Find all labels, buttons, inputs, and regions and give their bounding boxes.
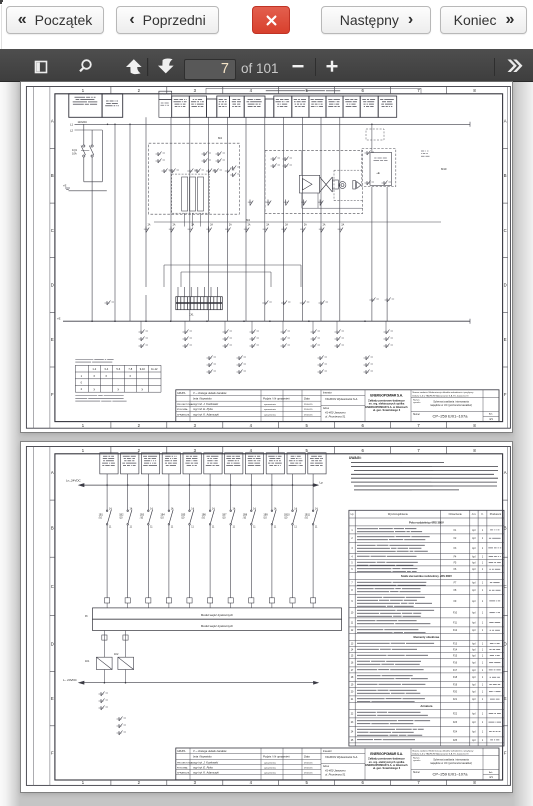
svg-text:D: D bbox=[51, 642, 54, 647]
svg-text:1K1: 1K1 bbox=[85, 660, 90, 663]
svg-text:10: 10 bbox=[351, 613, 354, 615]
svg-text:C: C bbox=[51, 228, 54, 233]
relay group 2K3 bbox=[318, 356, 328, 375]
svg-text:1: 1 bbox=[482, 677, 484, 679]
svg-text:1: 1 bbox=[82, 448, 85, 453]
svg-text:10A: 10A bbox=[72, 152, 77, 156]
svg-text:2A: 2A bbox=[323, 224, 326, 227]
svg-text:3: 3 bbox=[194, 780, 197, 785]
svg-text:24: 24 bbox=[351, 732, 354, 734]
junction dots on Ln rail bbox=[106, 484, 314, 486]
svg-text:11: 11 bbox=[171, 526, 174, 529]
svg-text:1: 1 bbox=[482, 538, 484, 540]
L2 feeder bbox=[75, 129, 103, 131]
svg-text:F16: F16 bbox=[453, 663, 458, 665]
svg-text:kpl: kpl bbox=[472, 613, 475, 615]
svg-text:Oznaczenie: Oznaczenie bbox=[449, 513, 463, 516]
binding margin line bbox=[33, 447, 35, 786]
svg-text:kpl: kpl bbox=[472, 583, 475, 585]
svg-text:F25: F25 bbox=[453, 740, 458, 742]
svg-text:F: F bbox=[51, 751, 54, 756]
svg-text:CP–259 E/01–107a: CP–259 E/01–107a bbox=[433, 772, 469, 777]
svg-text:E: E bbox=[51, 696, 54, 701]
svg-text:kpl: kpl bbox=[472, 677, 475, 679]
svg-text:Numer: Numer bbox=[413, 413, 420, 416]
svg-text:X: X bbox=[129, 374, 131, 378]
svg-text:F: F bbox=[51, 392, 54, 397]
svg-text:29.04.15: 29.04.15 bbox=[304, 404, 313, 406]
svg-text:11: 11 bbox=[233, 526, 236, 529]
svg-text:rysunku: rysunku bbox=[413, 759, 421, 762]
sidebar toggle icon bbox=[36, 62, 47, 73]
svg-text:1: 1 bbox=[482, 583, 484, 585]
contactor contacts in A bbox=[156, 152, 166, 164]
svg-text:19: 19 bbox=[351, 684, 354, 686]
svg-text:1: 1 bbox=[482, 649, 484, 651]
relay group 1K1 bbox=[140, 321, 142, 330]
svg-text:Nazwa zadania: Modernizacja uk: Nazwa zadania: Modernizacja układów wzbu… bbox=[413, 749, 475, 752]
relay group 1K8 bbox=[385, 321, 387, 330]
enclosure E bottom contacts bbox=[248, 200, 323, 206]
svg-text:29.04.15: 29.04.15 bbox=[304, 762, 313, 764]
svg-text:A: A bbox=[51, 470, 54, 475]
C side labels bbox=[421, 150, 424, 152]
svg-text:A: A bbox=[504, 470, 507, 475]
svg-text:F21: F21 bbox=[453, 699, 458, 701]
svg-text:mgr inż. E. Pyka: mgr inż. E. Pyka bbox=[193, 765, 213, 769]
separator right bbox=[494, 58, 495, 76]
svg-text:0: 0 bbox=[81, 381, 83, 385]
svg-text:kpl: kpl bbox=[472, 569, 475, 571]
svg-text:9: 9 bbox=[351, 601, 353, 603]
svg-text:M4: M4 bbox=[218, 136, 222, 140]
svg-text:1: 1 bbox=[482, 655, 484, 657]
svg-text:14: 14 bbox=[233, 508, 236, 511]
relay group 2K4 bbox=[364, 356, 374, 375]
svg-text:1-2: 1-2 bbox=[92, 367, 96, 371]
header input boxes bbox=[100, 453, 326, 474]
breaker contacts bbox=[106, 510, 317, 526]
svg-text:Adres: Adres bbox=[323, 765, 330, 768]
svg-text:2: 2 bbox=[138, 423, 141, 428]
svg-text:4/1: 4/1 bbox=[489, 775, 493, 779]
Ln supply rail bbox=[79, 484, 318, 487]
fuse labels bbox=[148, 224, 345, 227]
svg-text:kpl: kpl bbox=[472, 692, 475, 694]
svg-text:2A: 2A bbox=[148, 224, 151, 227]
svg-text:1: 1 bbox=[482, 530, 484, 532]
table rows bbox=[349, 521, 504, 743]
svg-text:F14: F14 bbox=[453, 649, 458, 651]
svg-text:5: 5 bbox=[306, 423, 309, 428]
selector table bbox=[75, 365, 161, 392]
title block frame bbox=[176, 390, 499, 422]
svg-text:Lp: Lp bbox=[320, 481, 324, 485]
svg-text:F4: F4 bbox=[454, 556, 457, 558]
svg-text:F23: F23 bbox=[453, 722, 458, 724]
sheet outer frame bbox=[26, 447, 510, 786]
svg-text:1: 1 bbox=[482, 556, 484, 558]
svg-text:14: 14 bbox=[130, 508, 133, 511]
svg-text:F22: F22 bbox=[453, 714, 458, 716]
svg-text:2A: 2A bbox=[229, 224, 232, 227]
output wires bbox=[104, 631, 125, 683]
svg-text:7-8: 7-8 bbox=[128, 367, 132, 371]
svg-text:11: 11 bbox=[150, 526, 153, 529]
svg-text:Schemat zasilania i sterowania: Schemat zasilania i sterowania bbox=[433, 758, 469, 762]
svg-text:kpl: kpl bbox=[472, 556, 475, 558]
Ln return rail bbox=[79, 681, 318, 684]
relay group 1K4 bbox=[251, 321, 253, 330]
plus bbox=[327, 61, 338, 72]
page 7 : schematic sheet 1 bbox=[21, 82, 512, 432]
svg-text:F19: F19 bbox=[453, 684, 458, 686]
relay group 1K3 bbox=[224, 321, 226, 330]
up arrow bbox=[126, 59, 142, 74]
svg-text:Moduł wejść dyskretnych: Moduł wejść dyskretnych bbox=[201, 624, 234, 628]
svg-text:mgr inż. E. Pyka: mgr inż. E. Pyka bbox=[193, 407, 213, 411]
svg-text:Data: Data bbox=[304, 755, 310, 759]
svg-text:2A: 2A bbox=[173, 224, 176, 227]
svg-text:29.04.15: 29.04.15 bbox=[304, 767, 313, 769]
svg-text:2A: 2A bbox=[248, 224, 251, 227]
svg-text:1: 1 bbox=[82, 423, 85, 428]
svg-text:Pn: Pn bbox=[85, 615, 89, 618]
svg-text:F15: F15 bbox=[453, 655, 458, 657]
svg-text:14: 14 bbox=[191, 508, 194, 511]
svg-text:3: 3 bbox=[351, 548, 353, 550]
svg-text:kpl: kpl bbox=[472, 740, 475, 742]
svg-text:X: X bbox=[93, 387, 95, 391]
svg-text:kpl: kpl bbox=[472, 563, 475, 565]
svg-text:rysunku: rysunku bbox=[413, 401, 421, 404]
selector table notes top bbox=[75, 359, 93, 361]
main breaker 1Q1 bbox=[69, 124, 107, 321]
svg-text:kpl: kpl bbox=[472, 601, 475, 603]
svg-text:TAURON Wytwarzanie S.A.: TAURON Wytwarzanie S.A. bbox=[325, 755, 358, 759]
svg-text:V – obsługa układu kanałów: V – obsługa układu kanałów bbox=[193, 391, 228, 395]
svg-text:6: 6 bbox=[362, 423, 365, 428]
svg-text:Szafa sterownika rozdzielnicy: Szafa sterownika rozdzielnicy +RS 380V bbox=[401, 574, 452, 578]
svg-text:11: 11 bbox=[351, 622, 354, 624]
top supply bus L1 bbox=[75, 123, 471, 125]
svg-text:1: 1 bbox=[482, 699, 484, 701]
svg-text:1: 1 bbox=[482, 714, 484, 716]
svg-text:6: 6 bbox=[351, 569, 353, 571]
svg-text:7: 7 bbox=[417, 423, 420, 428]
svg-text:Inwestor: Inwestor bbox=[323, 750, 332, 753]
svg-text:14: 14 bbox=[253, 508, 256, 511]
selector table notes bottom bbox=[75, 395, 97, 397]
svg-text:F20: F20 bbox=[453, 692, 458, 694]
svg-text:M4: M4 bbox=[246, 218, 250, 222]
title block right text bbox=[413, 391, 494, 421]
svg-text:napędów w UC (poziomów kanałów: napędów w UC (poziomów kanałów) bbox=[430, 403, 472, 407]
svg-text:kpl: kpl bbox=[472, 699, 475, 701]
svg-text:11: 11 bbox=[191, 526, 194, 529]
separator bbox=[315, 58, 316, 76]
svg-text:Imię i Nazwisko: Imię i Nazwisko bbox=[193, 397, 212, 401]
svg-text:mgr inż. J. Kozłowski: mgr inż. J. Kozłowski bbox=[193, 760, 218, 764]
main horizontal bus bbox=[63, 320, 470, 322]
svg-text:mgr inż. J. Kozłowski: mgr inż. J. Kozłowski bbox=[193, 402, 218, 406]
svg-text:F6: F6 bbox=[454, 569, 457, 571]
title block small text bbox=[177, 749, 358, 777]
svg-text:6: 6 bbox=[362, 88, 365, 93]
svg-text:11: 11 bbox=[109, 526, 112, 529]
svg-text:X: X bbox=[105, 374, 107, 378]
letter strip lines bbox=[49, 447, 51, 786]
svg-text:/10: /10 bbox=[305, 517, 309, 520]
svg-text:11: 11 bbox=[253, 526, 256, 529]
separator bbox=[147, 58, 148, 76]
svg-text:11: 11 bbox=[294, 526, 297, 529]
dashed enclosure C bbox=[362, 149, 396, 187]
contacts in E bbox=[271, 157, 281, 169]
svg-text:2: 2 bbox=[81, 387, 83, 391]
svg-text:ul. gen. Sowińskiego 3: ul. gen. Sowińskiego 3 bbox=[373, 766, 401, 770]
svg-text:ul. gen. Sowińskiego 3: ul. gen. Sowińskiego 3 bbox=[373, 408, 401, 412]
svg-text:uprawnienia: uprawnienia bbox=[264, 772, 277, 775]
svg-text:TAURON Wytwarzanie S.A.: TAURON Wytwarzanie S.A. bbox=[325, 397, 358, 401]
svg-text:SPRAWDZIŁ: SPRAWDZIŁ bbox=[177, 413, 190, 416]
svg-text:7: 7 bbox=[417, 448, 420, 453]
svg-text:5: 5 bbox=[351, 563, 353, 565]
svg-text:8: 8 bbox=[473, 88, 476, 93]
svg-text:8: 8 bbox=[473, 448, 476, 453]
svg-text:Adres: Adres bbox=[323, 407, 330, 410]
svg-text:RYSOWAŁ: RYSOWAŁ bbox=[177, 408, 189, 411]
svg-text:uprawnienia: uprawnienia bbox=[264, 403, 277, 406]
svg-text:E: E bbox=[504, 337, 507, 342]
svg-text:1: 1 bbox=[482, 590, 484, 592]
svg-text:Lp: Lp bbox=[351, 513, 354, 516]
svg-text:Producent: Producent bbox=[490, 513, 502, 516]
magnifier icon bbox=[80, 60, 91, 71]
relay group 1K6 bbox=[312, 321, 314, 330]
sheet inner border bbox=[55, 94, 503, 422]
svg-text:29.04.15: 29.04.15 bbox=[304, 773, 313, 775]
svg-text:F: F bbox=[504, 751, 507, 756]
title block right text bbox=[413, 749, 494, 779]
svg-text:11: 11 bbox=[315, 526, 318, 529]
svg-text:F17: F17 bbox=[453, 670, 458, 672]
svg-text:1: 1 bbox=[351, 530, 353, 532]
column divider ticks bbox=[111, 87, 447, 429]
dashed partition in E bbox=[334, 170, 363, 200]
svg-text:2: 2 bbox=[138, 88, 141, 93]
svg-text:/10: /10 bbox=[119, 517, 123, 520]
svg-text:1: 1 bbox=[482, 684, 484, 686]
svg-text:mgr inż. K. Adamczyk: mgr inż. K. Adamczyk bbox=[193, 412, 220, 416]
svg-text:2: 2 bbox=[138, 780, 141, 785]
svg-text:1: 1 bbox=[482, 732, 484, 734]
svg-text:X: X bbox=[93, 374, 95, 378]
svg-text:1: 1 bbox=[482, 622, 484, 624]
svg-text:C: C bbox=[504, 228, 507, 233]
svg-text:F13: F13 bbox=[453, 643, 458, 645]
svg-text:PROJEKTOWAŁ: PROJEKTOWAŁ bbox=[177, 761, 194, 764]
svg-text:1K2: 1K2 bbox=[114, 653, 119, 656]
aux contact group 1 bbox=[99, 692, 109, 711]
bus junction dots bbox=[107, 124, 131, 126]
svg-text:bloków 1-6 w TAURON Wytwarzani: bloków 1-6 w TAURON Wytwarzanie S.A. El.… bbox=[413, 753, 469, 756]
svg-text:1: 1 bbox=[482, 548, 484, 550]
drops to bus bbox=[115, 287, 340, 321]
svg-text:C: C bbox=[51, 584, 54, 589]
svg-text:2: 2 bbox=[138, 448, 141, 453]
svg-text:UWAGI:: UWAGI: bbox=[349, 456, 362, 460]
svg-text:napędów w UC (poziomów kanałów: napędów w UC (poziomów kanałów) bbox=[430, 761, 472, 765]
svg-text:9-10: 9-10 bbox=[140, 367, 146, 371]
table header bbox=[349, 517, 504, 519]
column numbers bbox=[82, 448, 477, 785]
svg-text:F12: F12 bbox=[453, 630, 458, 632]
svg-text:Podpis / Nr uprawnień: Podpis / Nr uprawnień bbox=[263, 755, 290, 759]
discrete input module bbox=[93, 608, 342, 631]
svg-text:14: 14 bbox=[212, 508, 215, 511]
svg-text:E: E bbox=[51, 337, 54, 342]
svg-text:SPRAWDZIŁ: SPRAWDZIŁ bbox=[177, 772, 190, 775]
relay group 2K1 bbox=[207, 356, 217, 375]
svg-text:6: 6 bbox=[362, 780, 365, 785]
svg-text:F5: F5 bbox=[454, 563, 457, 565]
svg-text:41-400 Jaworzno: 41-400 Jaworzno bbox=[325, 769, 346, 773]
aux contact group 2 bbox=[117, 717, 127, 736]
distribution wires bbox=[115, 117, 387, 321]
down arrow bbox=[158, 58, 174, 73]
svg-text:ul. Promienna 51: ul. Promienna 51 bbox=[325, 414, 346, 418]
relay group 1K2 bbox=[184, 321, 186, 330]
svg-text:Il.: Il. bbox=[482, 513, 484, 516]
heater resistor bank bbox=[182, 177, 204, 227]
svg-text:14: 14 bbox=[150, 508, 153, 511]
svg-text:3: 3 bbox=[194, 448, 197, 453]
svg-text:kpl: kpl bbox=[472, 643, 475, 645]
svg-text:kpl: kpl bbox=[472, 714, 475, 716]
svg-text:7: 7 bbox=[417, 88, 420, 93]
relay group 1K5 bbox=[282, 321, 284, 330]
svg-text:F18: F18 bbox=[453, 677, 458, 679]
relay coil 1K1 bbox=[96, 657, 112, 669]
breaker labels bbox=[99, 508, 319, 529]
svg-text:14: 14 bbox=[351, 649, 354, 651]
svg-text:2A: 2A bbox=[285, 224, 288, 227]
svg-text:4: 4 bbox=[250, 780, 253, 785]
svg-text:14: 14 bbox=[109, 508, 112, 511]
row letters bbox=[51, 470, 507, 756]
svg-text:kpl: kpl bbox=[472, 538, 475, 540]
svg-text:8: 8 bbox=[473, 780, 476, 785]
svg-text:5: 5 bbox=[306, 780, 309, 785]
svg-text:L1: L1 bbox=[70, 123, 74, 127]
svg-text:Pola rozdzielnicy 6RS 380V: Pola rozdzielnicy 6RS 380V bbox=[409, 521, 444, 525]
terminal block 1X1 bbox=[176, 297, 223, 310]
svg-text:1: 1 bbox=[482, 630, 484, 632]
svg-text:110VAC: 110VAC bbox=[78, 120, 88, 124]
svg-text:kpl: kpl bbox=[472, 548, 475, 550]
svg-text:F1: F1 bbox=[454, 530, 457, 532]
svg-text:5-6: 5-6 bbox=[116, 367, 120, 371]
svg-text:/10: /10 bbox=[181, 517, 185, 520]
svg-text:F7: F7 bbox=[454, 583, 457, 585]
svg-text:Moduł wejść dyskretnych: Moduł wejść dyskretnych bbox=[201, 613, 234, 617]
svg-text:B: B bbox=[51, 525, 54, 530]
svg-text:/10: /10 bbox=[263, 517, 267, 520]
long routing wire bbox=[154, 221, 441, 223]
svg-text:18: 18 bbox=[351, 677, 354, 679]
page 8 : schematic sheet 2 bbox=[21, 442, 512, 792]
svg-text:F2: F2 bbox=[454, 538, 457, 540]
svg-text:/10: /10 bbox=[160, 517, 164, 520]
svg-text:25: 25 bbox=[351, 740, 354, 742]
svg-text:+E: +E bbox=[57, 317, 61, 321]
svg-text:X: X bbox=[117, 387, 119, 391]
svg-text:11-12: 11-12 bbox=[151, 367, 158, 371]
svg-text:1: 1 bbox=[482, 722, 484, 724]
svg-text:1: 1 bbox=[482, 569, 484, 571]
svg-text:ul. Promienna 51: ul. Promienna 51 bbox=[325, 773, 346, 777]
column divider ticks bbox=[111, 447, 447, 786]
pre-bus contacts bbox=[105, 301, 115, 306]
svg-text:A: A bbox=[504, 119, 507, 124]
svg-text:Wyszczególnienie: Wyszczególnienie bbox=[388, 513, 409, 516]
svg-text:41-400 Jaworzno: 41-400 Jaworzno bbox=[325, 410, 346, 414]
C corner contacts bbox=[365, 151, 375, 156]
svg-text:2A: 2A bbox=[210, 224, 213, 227]
svg-text:kpl: kpl bbox=[472, 732, 475, 734]
input circuit wires bbox=[107, 474, 313, 598]
svg-text:22: 22 bbox=[351, 714, 354, 716]
svg-text:29.04.15: 29.04.15 bbox=[304, 409, 313, 411]
svg-text:13: 13 bbox=[351, 643, 354, 645]
svg-text:GRUPA: GRUPA bbox=[177, 392, 186, 395]
small dashed box bbox=[366, 129, 384, 140]
svg-text:20: 20 bbox=[351, 692, 354, 694]
svg-text:M10: M10 bbox=[441, 167, 447, 171]
fuse marks row bbox=[144, 227, 343, 233]
svg-text:29.04.15: 29.04.15 bbox=[304, 414, 313, 416]
svg-text:23: 23 bbox=[351, 722, 354, 724]
svg-text:4: 4 bbox=[250, 448, 253, 453]
svg-text:Podpis / Nr uprawnień: Podpis / Nr uprawnień bbox=[263, 397, 290, 401]
svg-text:F8: F8 bbox=[454, 590, 457, 592]
svg-text:uprawnienia: uprawnienia bbox=[264, 761, 277, 764]
svg-text:L2: L2 bbox=[70, 128, 74, 132]
dashed enclosure E bbox=[265, 150, 363, 213]
svg-text:11: 11 bbox=[212, 526, 215, 529]
title block grid bbox=[176, 748, 499, 780]
svg-text:3-4: 3-4 bbox=[104, 367, 108, 371]
svg-text:kpl: kpl bbox=[472, 590, 475, 592]
svg-text:+E: +E bbox=[63, 184, 67, 188]
svg-text:7: 7 bbox=[417, 780, 420, 785]
svg-text:F3: F3 bbox=[454, 548, 457, 550]
svg-text:Armatura: Armatura bbox=[420, 704, 432, 708]
svg-text:Imię i Nazwisko: Imię i Nazwisko bbox=[193, 755, 212, 759]
svg-text:GRUPA: GRUPA bbox=[177, 750, 186, 753]
below-module terminals bbox=[102, 635, 128, 640]
motor starter box bbox=[299, 175, 361, 193]
parts list table bbox=[349, 510, 504, 746]
svg-text:14: 14 bbox=[274, 508, 277, 511]
svg-text:1: 1 bbox=[482, 613, 484, 615]
svg-text:Data: Data bbox=[304, 397, 310, 401]
relay group 1K7 bbox=[336, 321, 338, 330]
svg-text:Inwestor: Inwestor bbox=[323, 392, 332, 395]
svg-text:kpl: kpl bbox=[472, 722, 475, 724]
svg-text:Ark.: Ark. bbox=[489, 771, 493, 774]
